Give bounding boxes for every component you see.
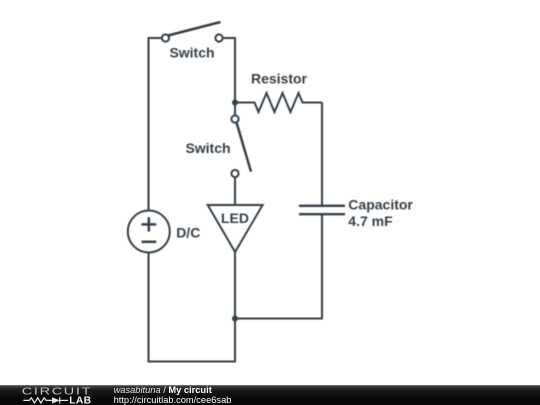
svg-text:LAB: LAB [69,396,91,405]
node junction J1 [232,100,238,106]
switch SW2 lever [237,122,252,171]
svg-text:LED: LED [221,210,249,226]
resistor R1 [235,93,322,112]
wire: right branch upper vertical [321,103,323,206]
svg-text:Switch: Switch [169,45,214,61]
footer credits [114,386,232,405]
switch SW2 top terminal [231,115,238,122]
wire: LED to junction J2 [234,252,236,319]
wire: bottom rail [149,253,236,362]
wire: junction J1 to switch SW2 [234,103,236,116]
switch SW2 bottom terminal [231,170,238,177]
wire: right branch lower vertical [238,214,322,318]
LED D1 [208,205,263,252]
wire: top rail right segment into middle branch [223,38,235,101]
svg-text:4.7 mF: 4.7 mF [348,213,393,229]
svg-text:Resistor: Resistor [251,71,308,87]
svg-text:Switch: Switch [185,140,230,156]
switch SW1 lever [168,22,221,36]
CircuitLab logo [0,385,110,405]
switch SW1 right terminal [215,34,222,41]
wire: switch SW2 to LED [234,177,236,205]
wire: top rail left segment [149,38,162,211]
capacitor C1 [299,206,345,214]
footer bar [0,385,540,405]
svg-text:Capacitor: Capacitor [348,197,413,213]
voltage source V1 [128,211,170,253]
node junction J2 [232,316,238,322]
svg-text:D/C: D/C [176,225,200,241]
switch SW1 left terminal [162,34,169,41]
